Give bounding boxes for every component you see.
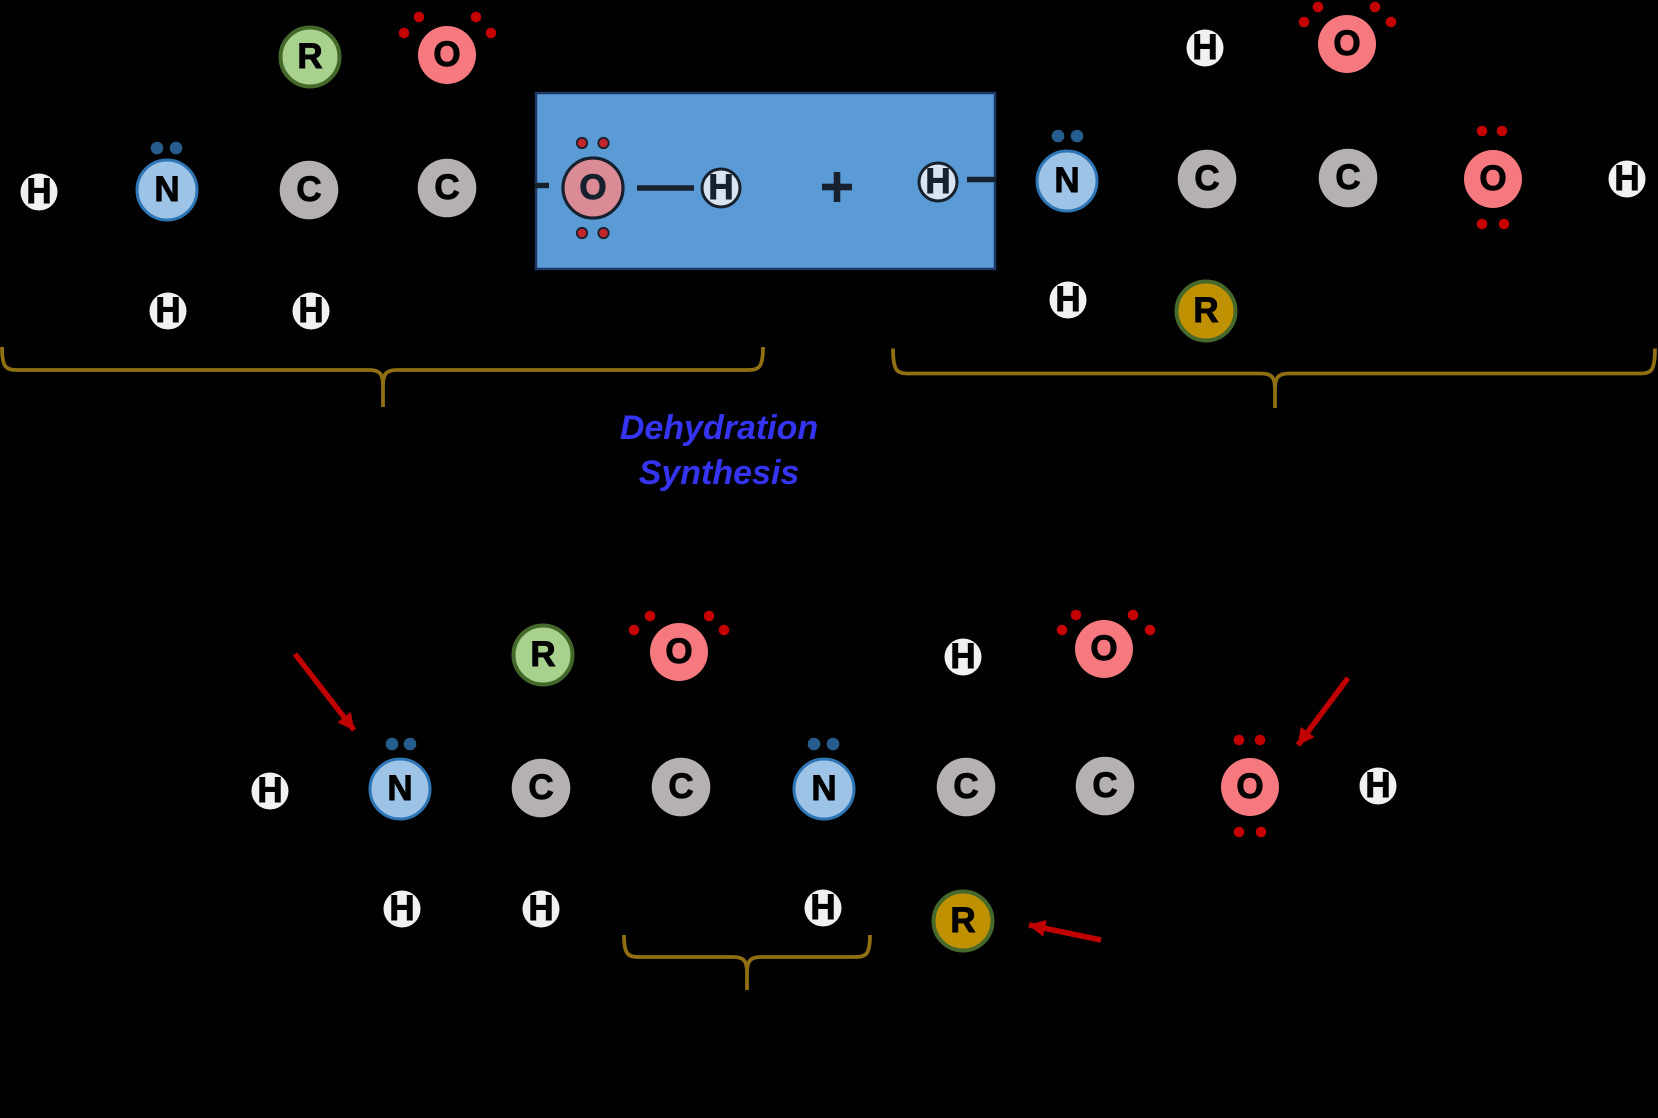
atom H10 [384, 889, 421, 928]
svg-text:R: R [950, 901, 975, 940]
atom N2 with lone pair [1037, 130, 1097, 211]
brace amino acid 2 [893, 349, 1655, 409]
svg-text:O: O [579, 168, 606, 207]
svg-text:O: O [1236, 767, 1263, 806]
svg-text:H: H [1614, 159, 1639, 198]
R group R2 (olive) [1177, 282, 1236, 341]
svg-text:C: C [953, 767, 978, 806]
svg-text:H: H [1192, 28, 1217, 67]
svg-text:H: H [950, 637, 975, 676]
plus sign [822, 172, 852, 202]
R group R1 (green) [281, 28, 340, 87]
svg-text:N: N [154, 170, 179, 209]
svg-text:C: C [1194, 159, 1219, 198]
arrow to N lone pair [295, 654, 354, 730]
atom O2 with lone pairs [1299, 2, 1397, 73]
svg-text:O: O [1333, 24, 1360, 63]
svg-text:N: N [811, 769, 836, 808]
atom H4 [1187, 28, 1224, 67]
R group R3 (green) [514, 626, 573, 685]
atom O (water) with lone pairs [563, 138, 623, 238]
svg-text:H: H [298, 291, 323, 330]
svg-text:N: N [387, 769, 412, 808]
label Dehydration Synthesis [620, 409, 818, 492]
bond stub C2 to O (crosses box edge) [535, 183, 549, 189]
svg-text:H: H [26, 172, 51, 211]
svg-text:N: N [1054, 161, 1079, 200]
atom C8 [1076, 757, 1135, 816]
svg-text:R: R [1193, 291, 1218, 330]
atom H9 [1360, 766, 1397, 805]
atom H5 [1609, 159, 1646, 198]
atom C7 [937, 758, 996, 817]
atom H (from acid group) [919, 162, 957, 201]
atom H6 [1050, 280, 1087, 319]
svg-text:Dehydration: Dehydration [620, 409, 818, 447]
svg-text:R: R [297, 37, 322, 76]
atom C2 [418, 159, 477, 218]
arrow to R group [1029, 925, 1101, 940]
svg-text:H: H [708, 168, 733, 207]
atom C6 [652, 758, 711, 817]
atom O6 with lone pairs [1221, 735, 1279, 838]
svg-text:C: C [528, 768, 553, 807]
R group R4 (olive) [934, 892, 993, 951]
svg-text:O: O [665, 632, 692, 671]
atom O1 with lone pairs [399, 12, 497, 84]
svg-text:H: H [257, 771, 282, 810]
svg-text:C: C [434, 168, 459, 207]
svg-text:C: C [668, 767, 693, 806]
svg-text:H: H [810, 888, 835, 927]
atom O5 with lone pairs [1057, 610, 1156, 678]
atom N4 with lone pair [794, 738, 854, 819]
bond stub H to O (crosses box edge) [967, 177, 996, 183]
atom N3 with lone pair [370, 738, 430, 819]
atom O3 with lone pairs [1464, 126, 1522, 230]
atom C4 [1319, 149, 1378, 208]
svg-text:H: H [528, 889, 553, 928]
svg-text:Synthesis: Synthesis [639, 454, 800, 492]
svg-text:O: O [1479, 159, 1506, 198]
svg-text:C: C [296, 170, 321, 209]
atom H3 [293, 291, 330, 330]
svg-text:H: H [155, 291, 180, 330]
atom H12 [805, 888, 842, 927]
svg-text:H: H [1055, 280, 1080, 319]
svg-text:O: O [433, 35, 460, 74]
svg-text:O: O [1090, 629, 1117, 668]
atom C1 [280, 161, 339, 220]
water molecule box [536, 93, 995, 269]
svg-text:C: C [1335, 158, 1360, 197]
atom N1 with lone pair [137, 142, 197, 220]
atom H8 [945, 637, 982, 676]
svg-text:H: H [389, 889, 414, 928]
atom O4 with lone pairs [629, 611, 730, 681]
atom H1 [21, 172, 58, 211]
atom H11 [523, 889, 560, 928]
atom C5 [512, 759, 571, 818]
svg-text:H: H [1365, 766, 1390, 805]
svg-text:R: R [530, 635, 555, 674]
bond O-H (water) [637, 185, 694, 191]
atom H (water) [702, 168, 740, 207]
atom C3 [1178, 150, 1237, 209]
brace amino acid 1 [2, 347, 763, 407]
svg-text:H: H [925, 162, 950, 201]
arrow to O [1298, 678, 1348, 745]
brace peptide bond [624, 935, 870, 990]
atom H7 [252, 771, 289, 810]
svg-text:C: C [1092, 766, 1117, 805]
atom H2 [150, 291, 187, 330]
